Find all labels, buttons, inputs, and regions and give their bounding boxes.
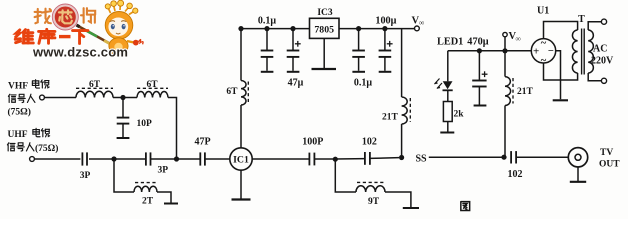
wire IC1 top to supply rail <box>240 29 242 148</box>
svg-text:LED1: LED1 <box>437 37 463 48</box>
ground pin of 7805 <box>312 38 337 69</box>
svg-text:IC3: IC3 <box>317 8 333 18</box>
capacitor 47P <box>194 137 210 166</box>
ground under IC1 <box>232 170 251 199</box>
wire supply rail (7805 section) <box>238 26 309 31</box>
svg-text:U1: U1 <box>537 6 549 17</box>
svg-text:IC1: IC1 <box>233 155 249 166</box>
bridge rectifier U1 <box>531 6 555 67</box>
svg-text:470μ: 470μ <box>467 37 488 48</box>
capacitor 0.1μ (left of 7805) <box>258 16 277 72</box>
terminal Vcc (right) <box>502 31 521 53</box>
terminal AC top <box>601 19 606 24</box>
svg-text:T: T <box>578 14 585 25</box>
wire 3P to node <box>89 158 146 160</box>
label AC 220V <box>591 44 614 67</box>
svg-text:OUT: OUT <box>599 159 620 169</box>
capacitor C 3P (second) <box>146 152 168 175</box>
svg-text:102: 102 <box>508 169 523 180</box>
label UHF input 电视信号入(75Ω) <box>7 128 58 154</box>
label VHF input 电视信号入(75Ω) <box>8 80 50 118</box>
capacitor 10P to ground <box>117 98 152 139</box>
svg-text:(75Ω): (75Ω) <box>35 143 58 154</box>
terminal UHF input <box>30 157 35 162</box>
svg-text:2T: 2T <box>142 196 154 206</box>
svg-text:3P: 3P <box>80 171 91 181</box>
watermark logo dzsc.com <box>15 0 143 59</box>
terminal Vcc (top rail) <box>412 16 426 31</box>
transformer T <box>572 14 593 75</box>
node UHF junction <box>111 156 116 161</box>
svg-text:∞: ∞ <box>516 34 522 43</box>
IC3 7805 regulator <box>310 8 340 39</box>
wire 47P to IC1 <box>205 158 230 160</box>
wire 102 to SS node <box>370 157 399 160</box>
svg-text:UHF: UHF <box>8 130 28 140</box>
svg-text:AC: AC <box>593 44 607 55</box>
capacitor 47μ electrolytic <box>287 29 304 89</box>
wire 3P to VHF junction node <box>151 156 200 161</box>
wire UHF input to C 3P <box>34 158 80 160</box>
capacitor 100P <box>302 137 323 166</box>
terminal AC bottom <box>601 78 606 83</box>
svg-text:100μ: 100μ <box>375 16 396 27</box>
svg-text:21T: 21T <box>517 87 534 97</box>
capacitor 102 (first) <box>335 137 377 165</box>
node 9T junction <box>333 157 338 162</box>
capacitor 0.1μ (right of 7805) <box>352 29 372 89</box>
wire 100P to node <box>314 158 335 160</box>
capacitor 470μ electrolytic <box>467 37 488 106</box>
svg-text:www.dzsc.com: www.dzsc.com <box>32 44 128 59</box>
svg-text:+: + <box>533 46 539 58</box>
wire L2 to UHF line junction <box>168 98 177 160</box>
wire transformer secondary to AC terminals <box>588 22 601 81</box>
ground at U1 negative output <box>553 51 568 101</box>
inductor 9T to ground <box>335 159 419 208</box>
LED1 indicator <box>434 37 463 91</box>
svg-text:220V: 220V <box>591 56 614 67</box>
svg-text:−: − <box>548 46 554 57</box>
terminal VHF input <box>40 95 45 100</box>
svg-text:21T: 21T <box>382 113 399 123</box>
svg-text:(75Ω): (75Ω) <box>8 107 31 118</box>
capacitor 100μ electrolytic <box>375 16 396 72</box>
svg-text:0.1μ: 0.1μ <box>354 78 373 89</box>
svg-text:7805: 7805 <box>314 24 334 35</box>
svg-text:VHF: VHF <box>8 82 28 92</box>
wire SS to 21T (right) node <box>429 155 507 160</box>
inductor 21T (right, rail to SS line) <box>505 51 534 157</box>
wire U1 bottom to transformer primary <box>544 63 578 80</box>
svg-text:100P: 100P <box>302 137 323 148</box>
svg-text:47μ: 47μ <box>288 78 304 89</box>
wire VHF input to L1 <box>44 97 76 99</box>
wire supply rail (right of 7805) <box>339 26 415 31</box>
wire U1 top to transformer primary <box>544 22 578 39</box>
svg-text:∞: ∞ <box>419 18 425 27</box>
caption 图 <box>461 202 470 211</box>
svg-text:9T: 9T <box>368 197 380 207</box>
ground under TV OUT <box>570 167 586 182</box>
svg-text:~: ~ <box>541 38 547 49</box>
inductor L1 6T (VHF) <box>76 80 113 98</box>
wire Vcc rail (right section) <box>448 50 532 52</box>
inductor 21T (left, rail to SS node) <box>382 29 410 156</box>
node VHF junction <box>113 95 137 100</box>
capacitor C 3P (first) <box>80 152 91 181</box>
svg-text:2k: 2k <box>454 110 465 120</box>
svg-text:SS: SS <box>416 153 428 164</box>
capacitor 102 (second) <box>508 151 523 180</box>
svg-text:102: 102 <box>362 137 377 148</box>
ground under 2k <box>440 122 454 133</box>
svg-text:47P: 47P <box>194 137 210 148</box>
svg-text:3P: 3P <box>158 166 169 176</box>
resistor 2k <box>443 90 464 121</box>
inductor L2 6T (VHF) <box>137 80 168 98</box>
connector TV OUT <box>568 148 620 170</box>
inductor 2T to ground <box>114 159 178 206</box>
svg-text:6T: 6T <box>146 80 158 90</box>
node SS <box>399 153 427 164</box>
wire 102 to TV OUT <box>516 156 568 158</box>
op-amp IC1 (mixer circle) <box>230 148 252 170</box>
svg-text:6T: 6T <box>226 87 238 97</box>
svg-text:6T: 6T <box>89 80 101 90</box>
svg-text:10P: 10P <box>137 119 153 129</box>
wire IC1 to 100P <box>252 158 309 160</box>
svg-text:TV: TV <box>600 148 613 158</box>
inductor 6T (vertical, above IC1) <box>226 81 248 106</box>
svg-text:0.1μ: 0.1μ <box>258 16 277 27</box>
